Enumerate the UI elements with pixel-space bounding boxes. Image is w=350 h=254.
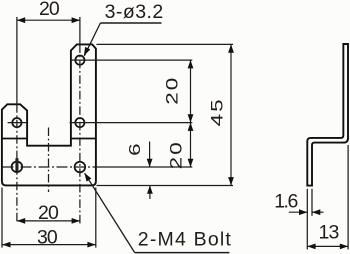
svg-text:6: 6: [127, 143, 144, 156]
dimension 20 right upper: [163, 60, 193, 123]
svg-text:1.6: 1.6: [274, 191, 297, 213]
svg-text:13: 13: [319, 222, 339, 244]
label 2-M4 Bolt: [84, 173, 232, 253]
centerlines horizontal / extension rows: [2, 44, 233, 247]
dimension 45: [208, 44, 234, 185]
hole tab: [12, 118, 21, 127]
svg-text:20: 20: [167, 140, 186, 169]
svg-text:3-ø3.2: 3-ø3.2: [105, 1, 164, 23]
dimension 20 right lower: [167, 123, 193, 170]
hole col 2: [75, 118, 84, 127]
dimension 20 bottom: [17, 202, 80, 224]
svg-text:45: 45: [208, 97, 227, 126]
dimension 30: [2, 227, 96, 249]
side view: [307, 44, 348, 186]
svg-text:20: 20: [38, 202, 59, 224]
svg-text:30: 30: [37, 227, 58, 249]
centerlines vertical: [17, 17, 80, 224]
svg-text:2-M4 Bolt: 2-M4 Bolt: [138, 228, 232, 250]
bend line left: [2, 138, 27, 140]
dim 1.6: [274, 189, 323, 250]
bolt bar: [15, 158, 18, 171]
svg-text:20: 20: [39, 0, 60, 20]
bolt hole left: [12, 162, 23, 173]
bend line right: [71, 138, 96, 140]
dimension 20 top: [17, 0, 80, 23]
label 3-o3.2: [84, 1, 164, 56]
front view outline: [2, 44, 96, 185]
dimension 6: [127, 142, 152, 200]
svg-text:20: 20: [163, 76, 182, 105]
hole col 1: [75, 56, 84, 65]
bolt hole right: [75, 162, 86, 173]
dim 13: [307, 145, 348, 249]
